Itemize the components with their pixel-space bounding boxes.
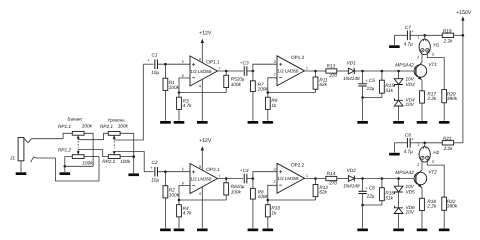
svg-text:6: 6 [182, 182, 184, 186]
svg-text:100k: 100k [118, 124, 129, 129]
svg-text:4.7µ: 4.7µ [404, 149, 414, 154]
svg-text:4.7µ: 4.7µ [404, 42, 414, 47]
svg-text:1/2 LM358: 1/2 LM358 [278, 176, 300, 181]
svg-text:10µ: 10µ [151, 178, 159, 183]
svg-text:Баланс: Баланс [67, 117, 83, 122]
svg-text:62k: 62k [319, 190, 327, 195]
svg-text:VD2: VD2 [347, 168, 357, 173]
svg-text:22µ: 22µ [366, 193, 375, 198]
svg-text:C4: C4 [243, 168, 249, 173]
svg-text:1/2 LM358: 1/2 LM358 [278, 69, 300, 74]
svg-text:VD3: VD3 [406, 82, 416, 87]
svg-text:100k: 100k [120, 159, 131, 164]
svg-text:7: 7 [218, 67, 220, 71]
svg-text:4.7k: 4.7k [183, 211, 193, 216]
svg-text:10V: 10V [406, 102, 415, 107]
svg-text:OP1.1: OP1.1 [206, 59, 220, 64]
svg-text:+12V: +12V [199, 138, 212, 144]
svg-text:51k: 51k [385, 88, 393, 93]
svg-text:VD1: VD1 [347, 61, 357, 66]
svg-text:1/2 LM358: 1/2 LM358 [191, 176, 213, 181]
svg-text:1: 1 [306, 67, 308, 71]
svg-text:100k: 100k [258, 87, 269, 92]
svg-text:OP1.2: OP1.2 [291, 55, 305, 60]
svg-text:10µ: 10µ [151, 70, 159, 75]
svg-text:2: 2 [273, 73, 275, 77]
svg-text:RP1.1: RP1.1 [58, 124, 71, 129]
svg-text:+12V: +12V [199, 30, 212, 36]
svg-text:4: 4 [199, 192, 201, 196]
svg-text:RP1.2: RP1.2 [58, 147, 71, 152]
svg-text:R19: R19 [443, 29, 452, 34]
svg-text:3: 3 [273, 168, 275, 172]
svg-text:VT2: VT2 [428, 169, 437, 174]
svg-text:Уровень: Уровень [107, 118, 125, 123]
svg-text:1/2 LM358: 1/2 LM358 [191, 69, 213, 74]
svg-text:2: 2 [273, 180, 275, 184]
svg-text:RP2.1: RP2.1 [100, 124, 113, 129]
svg-text:10V: 10V [406, 184, 415, 189]
svg-text:390k: 390k [447, 96, 458, 101]
svg-text:5: 5 [182, 168, 184, 172]
svg-text:100k: 100k [258, 194, 269, 199]
svg-text:100k: 100k [82, 161, 93, 166]
svg-text:1: 1 [306, 174, 308, 178]
svg-text:2: 2 [417, 163, 419, 167]
svg-text:62k: 62k [319, 82, 327, 87]
svg-text:8: 8 [199, 58, 201, 62]
svg-text:1k: 1k [271, 103, 277, 108]
svg-text:H2: H2 [433, 150, 439, 155]
svg-text:2.2k: 2.2k [426, 96, 437, 101]
svg-text:100k: 100k [82, 124, 93, 129]
svg-text:MPSA42: MPSA42 [395, 62, 414, 67]
svg-text:RP2.2: RP2.2 [102, 159, 115, 164]
svg-text:3: 3 [432, 160, 434, 164]
svg-text:H1: H1 [433, 42, 439, 47]
svg-text:1: 1 [417, 36, 419, 40]
svg-text:100k: 100k [231, 189, 242, 194]
svg-text:3: 3 [273, 60, 275, 64]
svg-text:270: 270 [328, 180, 337, 185]
svg-text:1N4148: 1N4148 [343, 184, 360, 189]
svg-text:C5: C5 [369, 78, 375, 83]
svg-text:6: 6 [182, 74, 184, 78]
svg-text:10V: 10V [406, 210, 415, 215]
svg-text:2.2k: 2.2k [443, 38, 454, 43]
svg-text:1: 1 [417, 143, 419, 147]
svg-text:R13: R13 [327, 63, 336, 68]
svg-text:C1: C1 [152, 52, 158, 57]
svg-text:22µ: 22µ [366, 86, 375, 91]
svg-text:4: 4 [199, 85, 201, 89]
svg-text:J1: J1 [9, 155, 15, 160]
svg-text:2.2k: 2.2k [443, 146, 454, 151]
svg-text:10V: 10V [406, 76, 415, 81]
svg-text:C3: C3 [243, 60, 249, 65]
svg-text:+150V: +150V [456, 10, 472, 16]
svg-text:100k: 100k [169, 85, 180, 90]
svg-text:100k: 100k [231, 82, 242, 87]
svg-text:C6: C6 [369, 186, 375, 191]
svg-text:VT1: VT1 [428, 62, 437, 67]
svg-text:OP2.1: OP2.1 [206, 167, 220, 172]
svg-text:2.2k: 2.2k [426, 204, 437, 209]
svg-text:3: 3 [432, 53, 434, 57]
svg-text:10µ: 10µ [237, 77, 245, 82]
svg-text:8: 8 [199, 165, 201, 169]
svg-text:270: 270 [328, 73, 337, 78]
svg-text:100k: 100k [169, 192, 180, 197]
svg-text:R21: R21 [443, 136, 452, 141]
svg-text:10µ: 10µ [237, 184, 245, 189]
svg-text:1N4148: 1N4148 [343, 76, 360, 81]
svg-text:5: 5 [182, 60, 184, 64]
svg-text:VD5: VD5 [406, 190, 416, 195]
svg-text:7: 7 [218, 174, 220, 178]
svg-text:OP2.2: OP2.2 [291, 162, 305, 167]
svg-text:R14: R14 [327, 171, 336, 176]
svg-text:51k: 51k [385, 195, 393, 200]
svg-text:MPSA42: MPSA42 [395, 170, 414, 175]
svg-text:2: 2 [417, 55, 419, 59]
svg-text:4.7k: 4.7k [183, 103, 193, 108]
svg-text:1k: 1k [271, 210, 277, 215]
svg-text:390k: 390k [447, 204, 458, 209]
